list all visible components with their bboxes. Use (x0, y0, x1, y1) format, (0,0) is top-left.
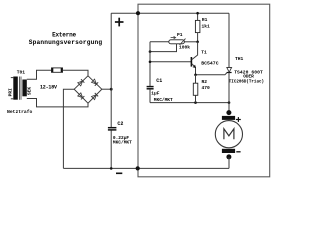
label M (224, 129, 234, 139)
svg-text:R2: R2 (202, 79, 208, 85)
wire P1 wiper (150, 44, 177, 52)
node wiper tie (149, 50, 152, 53)
svg-text:TH1: TH1 (235, 56, 244, 62)
svg-text:C1: C1 (156, 78, 162, 84)
module box (138, 4, 270, 177)
svg-text:T1: T1 (201, 49, 207, 55)
svg-text:Spannungsversorgung: Spannungsversorgung (29, 39, 103, 46)
svg-text:BC547C: BC547C (201, 61, 218, 67)
label MKC/MKT of C2 (113, 140, 132, 146)
svg-text:1µF: 1µF (151, 91, 159, 97)
svg-text:PRI: PRI (7, 88, 13, 96)
label T1 (201, 49, 207, 55)
capacitor C2 (108, 128, 117, 130)
label TIC206D (229, 79, 264, 84)
svg-text:470: 470 (202, 85, 211, 91)
transformer T01 (7, 69, 32, 99)
label Netztrafo (7, 109, 33, 115)
svg-text:SEK: SEK (27, 87, 33, 95)
svg-text:P1: P1 (177, 32, 183, 38)
svg-text:100k: 100k (179, 45, 190, 51)
label 12-18V (40, 85, 57, 91)
label 0.22uF (113, 135, 130, 141)
label TH1 (235, 56, 244, 62)
P1 adjust arrow (171, 36, 176, 38)
wire secondary bottom to bridge AC2 (27, 99, 88, 107)
terminal node minus (136, 166, 140, 170)
resistor R1 (195, 13, 200, 42)
wire T1 base (150, 61, 191, 63)
svg-text:Netztrafo: Netztrafo (7, 109, 33, 115)
motor plus mark (236, 117, 241, 122)
label R2 (202, 79, 208, 85)
wire bridge plus (102, 88, 111, 90)
label ODER (243, 75, 254, 80)
svg-text:C2: C2 (117, 121, 123, 127)
wire plus riser upper (110, 13, 112, 127)
node emitter junction (194, 74, 197, 77)
wire C1 bottom (149, 89, 151, 103)
wire bridge minus to bottom rail (63, 89, 74, 168)
capacitor C1 (147, 87, 154, 89)
node cathode line junction (228, 101, 231, 104)
node C2 minus (110, 167, 113, 170)
terminal node plus (136, 11, 140, 15)
label C2 (117, 121, 123, 127)
plus sign (115, 18, 124, 27)
label C1 (156, 78, 162, 84)
minus rail (63, 167, 229, 169)
wire P1 branch down to C1 (149, 42, 151, 86)
motor minus mark (236, 151, 240, 153)
diode D4 bottom-right (91, 93, 98, 100)
svg-text:Externe: Externe (52, 31, 76, 38)
label Externe Spannungsversorgung (29, 31, 103, 45)
svg-text:ODER: ODER (243, 75, 254, 80)
diode D1 top-left (78, 79, 85, 86)
diode D2 top-right (91, 79, 98, 86)
node bridge plus junction (110, 88, 113, 91)
svg-text:R1: R1 (202, 17, 208, 23)
svg-text:TIC206D(Triac): TIC206D(Triac) (229, 79, 264, 84)
wire emitter to gate (196, 73, 228, 75)
svg-text:1k1: 1k1 (202, 24, 211, 30)
diode D3 bottom-left (78, 93, 85, 100)
node base tap (149, 61, 152, 64)
label TS420 600T (234, 69, 263, 75)
label R1 (202, 17, 208, 23)
label 1k1 (202, 24, 211, 30)
wire secondary top to fuse (27, 70, 52, 79)
motor M1 (215, 110, 242, 168)
bridge rectifier diamond (74, 76, 102, 103)
svg-text:12-18V: 12-18V (40, 85, 57, 91)
svg-text:MKC/MKT: MKC/MKT (154, 97, 173, 103)
node R2 bottom (194, 101, 197, 104)
minus sign (116, 172, 122, 174)
thyristor TH1 (227, 13, 232, 112)
wire plus riser lower (below C2) (110, 130, 112, 168)
resistor R2 (193, 75, 198, 103)
label 1uF (151, 91, 159, 97)
label P1 (177, 32, 183, 38)
label BC547C (201, 61, 218, 67)
label 100k (179, 45, 190, 51)
node R1 top (196, 12, 199, 15)
fuse F1 (52, 68, 63, 72)
potentiometer P1 (150, 39, 198, 45)
node P1 right at R1 lead (196, 41, 199, 44)
svg-text:T01: T01 (17, 69, 26, 75)
wire RC bottom line (150, 102, 229, 104)
svg-text:MKC/MKT: MKC/MKT (113, 140, 132, 146)
label 470 (202, 85, 211, 91)
wire fuse to bridge AC1 (63, 70, 89, 76)
label MKC/MKT of C1 (154, 97, 173, 103)
plus rail (111, 12, 229, 14)
transistor T1 (191, 42, 197, 75)
